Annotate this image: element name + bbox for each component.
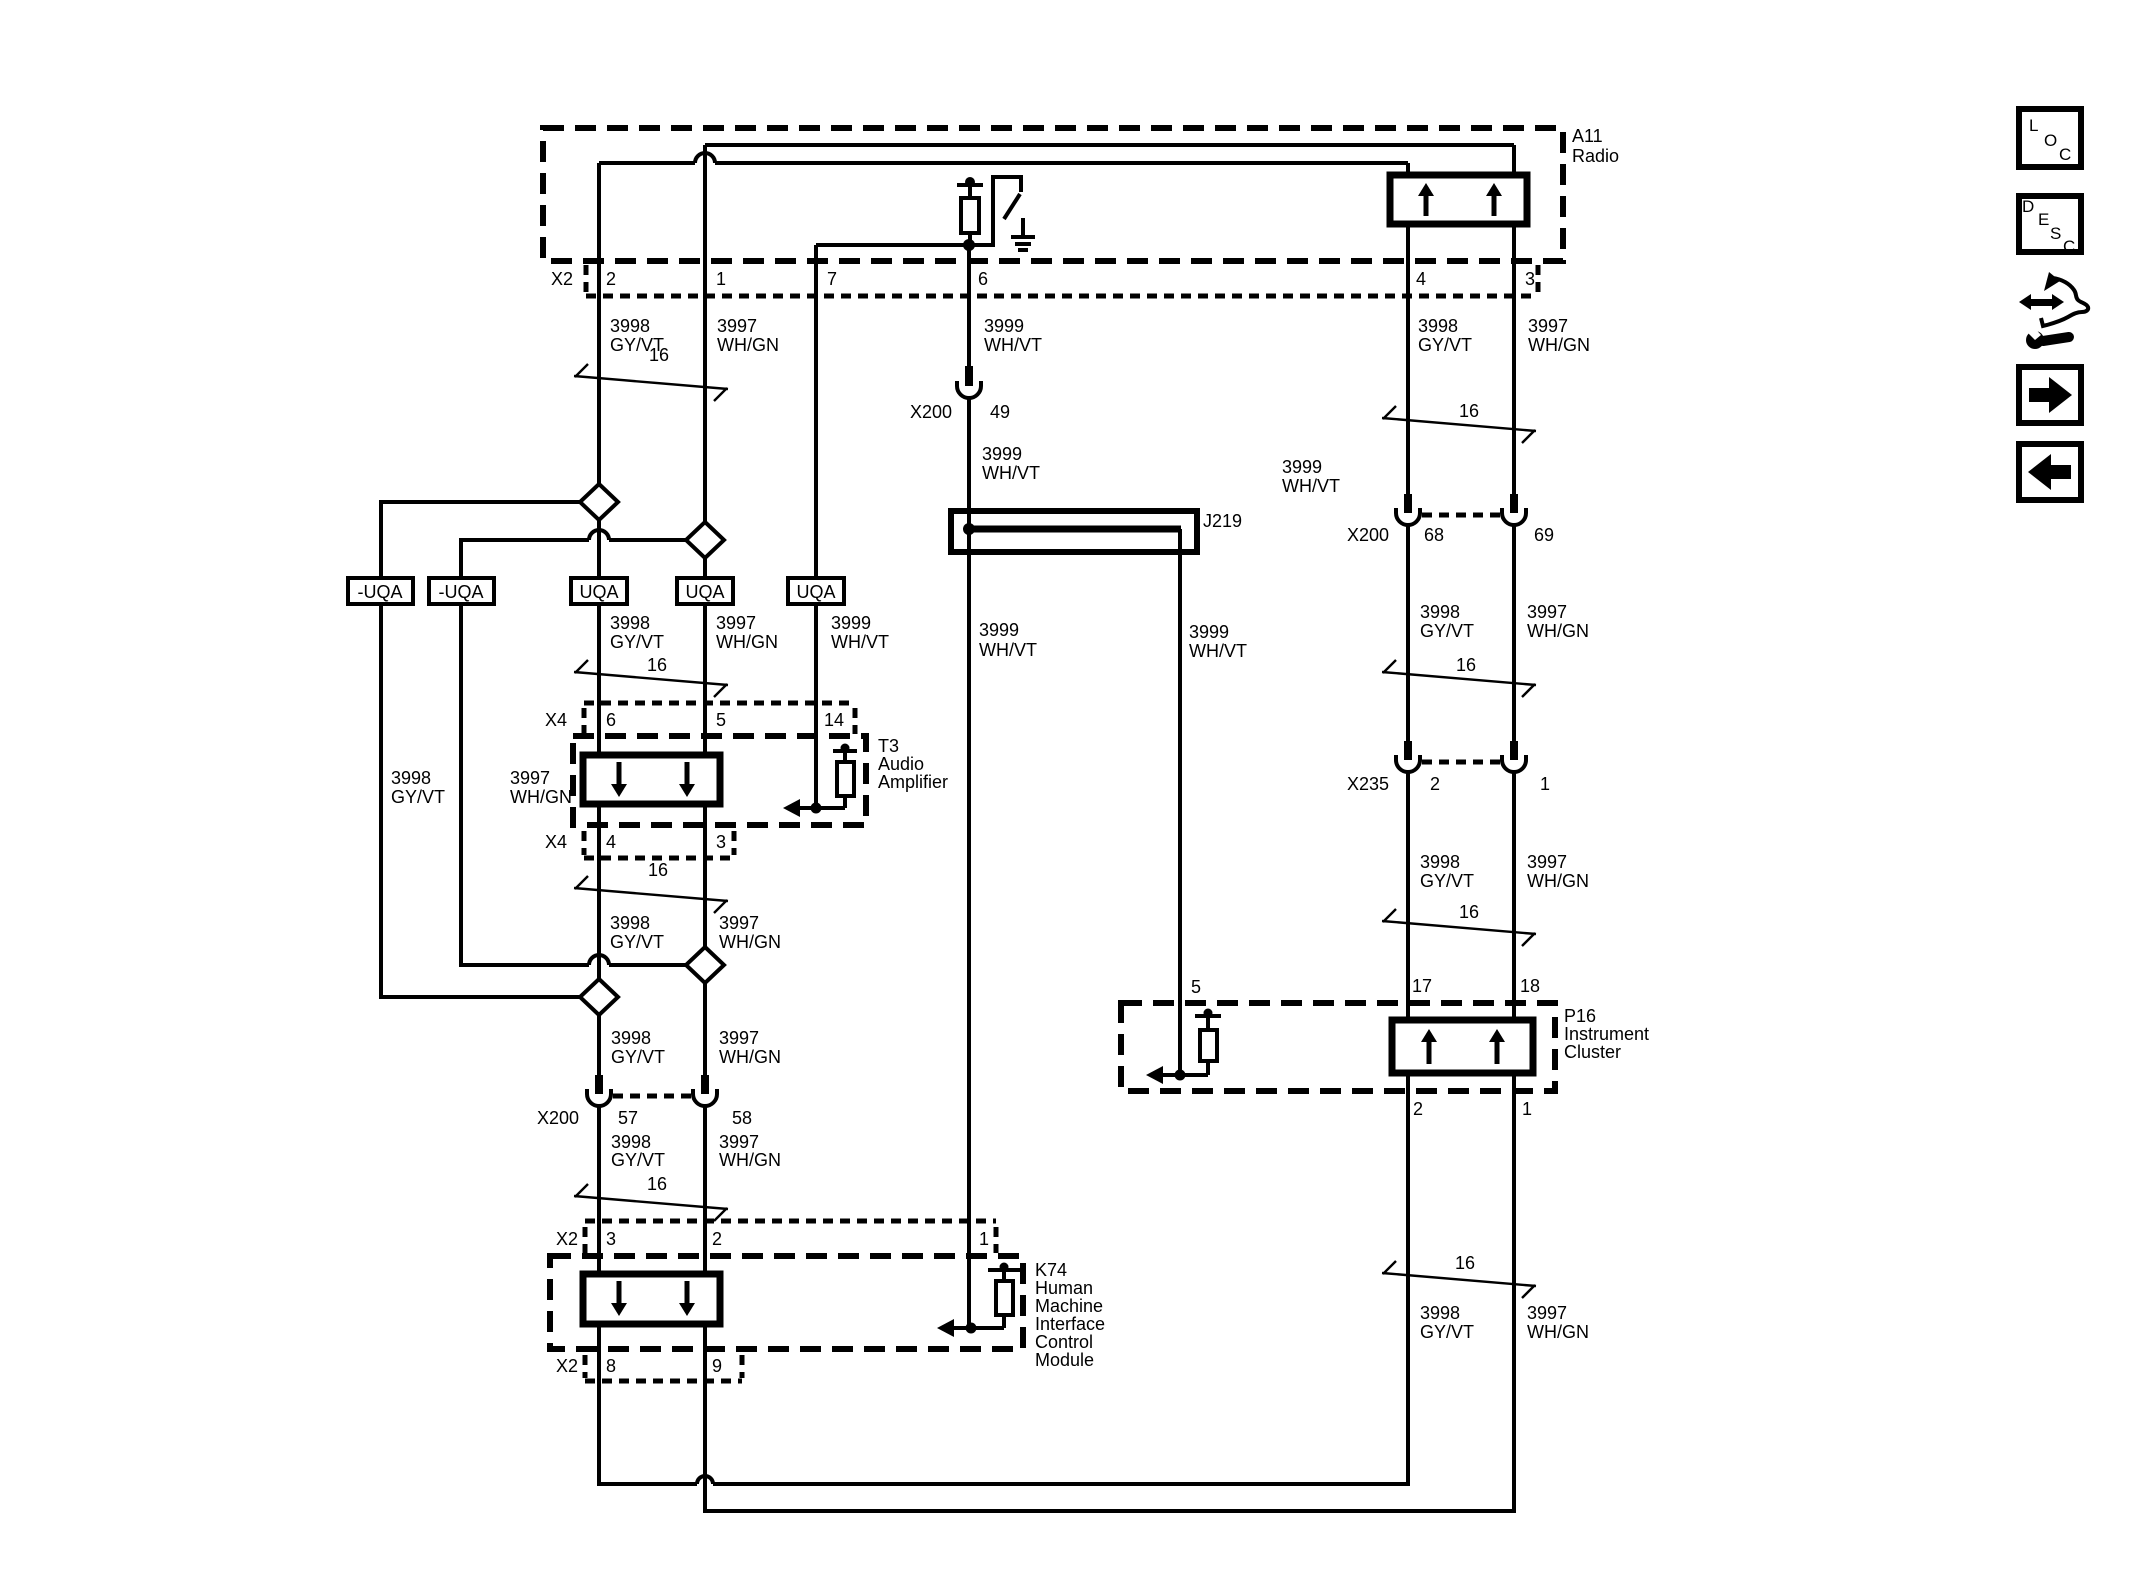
svg-text:WH/VT: WH/VT — [1189, 641, 1247, 661]
svg-text:57: 57 — [618, 1108, 638, 1128]
svg-text:3999: 3999 — [1189, 622, 1229, 642]
wire T3 internal resistor to node — [816, 806, 845, 810]
svg-text:3998: 3998 — [1420, 852, 1460, 872]
svg-text:4: 4 — [1416, 269, 1426, 289]
svg-text:16: 16 — [647, 1174, 667, 1194]
wire hop of -UQA branch 2 over 3998 wire (bottom) — [589, 955, 609, 965]
svg-text:3999: 3999 — [982, 444, 1022, 464]
svg-text:16: 16 — [1456, 655, 1476, 675]
twisted pair symbol right 1 — [1382, 406, 1536, 443]
svg-text:8: 8 — [606, 1356, 616, 1376]
wire P16 internal resistor to node — [1180, 1073, 1208, 1077]
svg-text:3998: 3998 — [1420, 1303, 1460, 1323]
wire -UQA option branch 2 vertical lower — [459, 604, 463, 967]
wire -UQA option branch 1 vertical upper — [379, 500, 383, 578]
svg-text:WH/GN: WH/GN — [719, 932, 781, 952]
DESC legend box — [2019, 196, 2081, 256]
svg-text:9: 9 — [712, 1356, 722, 1376]
arrow down in K74 box right — [679, 1281, 695, 1316]
svg-text:UQA: UQA — [685, 582, 724, 602]
wire dashed link X235 2-1 — [1422, 760, 1500, 765]
wire top horizontal 3998 left part (A11 pin 2 to hop) — [599, 161, 695, 165]
svg-text:3998: 3998 — [610, 316, 650, 336]
svg-text:L: L — [2029, 116, 2038, 135]
wire 3998 GY/VT right vertical upper (A11 pin 4 to X200-68) — [1406, 163, 1410, 496]
wire dashed link X200 68-69 — [1422, 513, 1500, 518]
svg-text:3999: 3999 — [1282, 457, 1322, 477]
wire 3998 GY/VT left vertical lower segment — [597, 1106, 601, 1486]
svg-text:X2: X2 — [551, 269, 573, 289]
svg-text:WH/GN: WH/GN — [1528, 335, 1590, 355]
svg-text:17: 17 — [1412, 976, 1432, 996]
arrow down in K74 box left — [611, 1281, 627, 1316]
twisted pair symbol right 2 — [1382, 660, 1536, 697]
ground symbol inside A11 radio — [1011, 218, 1035, 250]
resistor inside A11 radio — [957, 177, 983, 247]
wire K74 internal resistor to node — [971, 1326, 1004, 1330]
wire -UQA option branch 2 bottom horizontal right part — [609, 963, 686, 967]
svg-text:WH/VT: WH/VT — [984, 335, 1042, 355]
svg-text:X235: X235 — [1347, 774, 1389, 794]
arrow up in P16 box right — [1489, 1029, 1505, 1064]
wire 3997 WH/GN right vertical (X235-1 to bottom) — [1512, 772, 1516, 1513]
resistor inside K74 — [988, 1263, 1020, 1329]
svg-text:16: 16 — [1459, 401, 1479, 421]
inline connector X235 pin 1 — [1502, 741, 1526, 772]
svg-text:Module: Module — [1035, 1350, 1094, 1370]
svg-text:69: 69 — [1534, 525, 1554, 545]
svg-text:3999: 3999 — [984, 316, 1024, 336]
svg-text:16: 16 — [1455, 1253, 1475, 1273]
svg-text:X4: X4 — [545, 710, 567, 730]
wire A11 internal horizontal to pin 7 branch — [816, 243, 993, 247]
svg-text:2: 2 — [1413, 1099, 1423, 1119]
connector box with arrows inside P16 (pins 17/18) — [1392, 1020, 1533, 1073]
svg-text:GY/VT: GY/VT — [1420, 1322, 1474, 1342]
node diamond splice on 3998 wire (bottom) — [580, 979, 618, 1015]
wire -UQA option branch 1 bottom horizontal — [381, 995, 580, 999]
wire -UQA option branch 2 bottom horizontal left part — [461, 963, 589, 967]
svg-text:Instrument: Instrument — [1564, 1024, 1649, 1044]
inline connector X235 pin 2 — [1396, 741, 1420, 772]
connector box with arrows inside K74 — [583, 1274, 720, 1324]
svg-text:7: 7 — [827, 269, 837, 289]
svg-text:3997: 3997 — [1527, 1303, 1567, 1323]
svg-text:16: 16 — [649, 345, 669, 365]
previous page arrow box — [2019, 444, 2081, 500]
svg-text:T3: T3 — [878, 736, 899, 756]
svg-text:2: 2 — [712, 1229, 722, 1249]
svg-text:3997: 3997 — [1527, 852, 1567, 872]
node diamond splice on 3998 wire (top) — [580, 484, 618, 520]
wire 3999 WH/VT from J219 splice to P16 pin 5 — [1178, 529, 1182, 1075]
wire 3997 WH/GN right vertical upper (A11 pin 3 to X200-69) — [1512, 145, 1516, 496]
wire 3998 GY/VT right vertical (X200-68 to X235-2) — [1406, 525, 1410, 743]
svg-text:6: 6 — [978, 269, 988, 289]
connector box with arrows inside A11 (pins 4/3) — [1390, 175, 1527, 224]
svg-text:68: 68 — [1424, 525, 1444, 545]
twisted pair symbol left 1 — [574, 364, 728, 401]
switch inside A11 radio — [993, 177, 1021, 247]
svg-text:Cluster: Cluster — [1564, 1042, 1621, 1062]
wire -UQA option branch 2 top horizontal left part — [461, 538, 589, 542]
node junction inside P16 — [1175, 1070, 1186, 1081]
connector box with arrows inside T3 — [583, 755, 720, 804]
wire 3999 WH/VT center vertical (A11 pin 6 to X200-49) — [967, 245, 971, 368]
svg-text:-UQA: -UQA — [358, 582, 403, 602]
arrow into P16 cluster — [1146, 1066, 1180, 1084]
svg-text:2: 2 — [1430, 774, 1440, 794]
node junction inside T3 — [811, 803, 822, 814]
resistor inside T3 — [833, 744, 857, 809]
module K74 dashed outline — [550, 1256, 1023, 1349]
connector X2 of A11 dotted row — [586, 265, 1538, 296]
connector X2 of K74 dotted row (pins 3/2/1) — [585, 1221, 996, 1253]
svg-text:16: 16 — [647, 655, 667, 675]
wire 3997 WH/GN right vertical (X200-69 to X235-1) — [1512, 525, 1516, 743]
twisted pair symbol left 4 — [574, 1184, 728, 1221]
svg-text:3: 3 — [606, 1229, 616, 1249]
svg-text:C: C — [2063, 237, 2075, 256]
svg-text:GY/VT: GY/VT — [610, 932, 664, 952]
arrow down in T3 box left — [611, 762, 627, 797]
option box UQA on 3997 wire — [677, 578, 733, 604]
svg-text:X2: X2 — [556, 1229, 578, 1249]
wire bottom horizontal 3997 (K74 X2-9 to P16 pin 1 branch) — [703, 1509, 1516, 1513]
wire dashed link X200 57-58 — [613, 1094, 691, 1099]
svg-text:3997: 3997 — [719, 1028, 759, 1048]
svg-text:Human: Human — [1035, 1278, 1093, 1298]
connector X4 of T3 dotted row (pins 6/5/14) — [584, 703, 855, 734]
svg-text:P16: P16 — [1564, 1006, 1596, 1026]
svg-text:3998: 3998 — [1420, 602, 1460, 622]
svg-text:WH/VT: WH/VT — [979, 640, 1037, 660]
wire bottom horizontal 3998 left part (K74 X2-8 to hop) — [597, 1482, 697, 1486]
arrow into K74 module — [937, 1319, 971, 1337]
svg-text:E: E — [2038, 210, 2049, 229]
wire 3998 GY/VT right vertical (X235-2 to bottom) — [1406, 772, 1410, 1486]
wire 3999 WH/VT center vertical (X200-49 to K74 pin 1) — [967, 398, 971, 1328]
svg-text:WH/GN: WH/GN — [1527, 1322, 1589, 1342]
twisted pair symbol right 4 — [1382, 1261, 1536, 1298]
svg-text:D: D — [2022, 197, 2034, 216]
svg-text:GY/VT: GY/VT — [611, 1150, 665, 1170]
svg-text:3999: 3999 — [979, 620, 1019, 640]
node diamond splice on 3997 wire (top) — [686, 522, 724, 558]
option box UQA on 3998 wire — [571, 578, 627, 604]
svg-text:WH/VT: WH/VT — [1282, 476, 1340, 496]
connector X4 of T3 dotted row (pins 4/3) — [584, 831, 734, 858]
svg-text:X200: X200 — [910, 402, 952, 422]
svg-text:WH/GN: WH/GN — [1527, 621, 1589, 641]
wire 3997 WH/GN left vertical lower segment — [703, 1106, 707, 1513]
wire top horizontal 3998 right part (hop to A11 pin 4 branch) — [715, 161, 1408, 165]
amplifier T3 dashed outline — [573, 736, 866, 825]
svg-text:58: 58 — [732, 1108, 752, 1128]
splice J219 — [951, 511, 1197, 552]
svg-text:UQA: UQA — [796, 582, 835, 602]
inline connector X200 pin 68 — [1396, 494, 1420, 525]
twisted pair symbol left 3 — [574, 876, 728, 913]
arrow up in P16 box left — [1421, 1029, 1437, 1064]
arrow into T3 amplifier — [783, 799, 816, 817]
svg-text:GY/VT: GY/VT — [391, 787, 445, 807]
instrument cluster P16 dashed outline — [1121, 1003, 1555, 1091]
svg-text:3998: 3998 — [611, 1132, 651, 1152]
svg-text:3998: 3998 — [611, 1028, 651, 1048]
wire hop over pin-1 wire at top — [695, 153, 715, 163]
svg-text:C: C — [2059, 145, 2071, 164]
radio A11 dashed outline — [543, 128, 1563, 261]
svg-text:3: 3 — [716, 832, 726, 852]
arrow up in A11 connector box left — [1418, 183, 1434, 216]
arrow down in T3 box right — [679, 762, 695, 797]
svg-text:J219: J219 — [1203, 511, 1242, 531]
inline connector X200 pin 58 — [693, 1075, 717, 1106]
svg-text:GY/VT: GY/VT — [611, 1047, 665, 1067]
svg-text:3997: 3997 — [716, 613, 756, 633]
wire -UQA option branch 1 vertical lower — [379, 604, 383, 999]
inline connector X200 pin 49 — [957, 366, 981, 398]
svg-text:3997: 3997 — [1527, 602, 1567, 622]
svg-text:3998: 3998 — [610, 913, 650, 933]
svg-text:2: 2 — [606, 269, 616, 289]
svg-text:3997: 3997 — [719, 1132, 759, 1152]
inline connector X200 pin 69 — [1502, 494, 1526, 525]
svg-text:6: 6 — [606, 710, 616, 730]
wire -UQA option branch 2 vertical upper — [459, 538, 463, 578]
resistor inside P16 — [1195, 1009, 1221, 1076]
wire -UQA option branch 2 top horizontal right part — [609, 538, 686, 542]
wire top horizontal 3997 (A11 pin 1 to pin 3 branch) — [705, 143, 1514, 147]
svg-text:WH/GN: WH/GN — [716, 632, 778, 652]
svg-text:K74: K74 — [1035, 1260, 1067, 1280]
svg-text:Control: Control — [1035, 1332, 1093, 1352]
next page arrow box — [2019, 367, 2081, 423]
svg-text:5: 5 — [1191, 977, 1201, 997]
svg-text:X200: X200 — [537, 1108, 579, 1128]
twisted pair symbol left 2 — [574, 660, 728, 697]
svg-text:1: 1 — [979, 1229, 989, 1249]
svg-text:WH/GN: WH/GN — [510, 787, 572, 807]
node junction inside K74 — [966, 1323, 977, 1334]
svg-text:3997: 3997 — [717, 316, 757, 336]
svg-text:UQA: UQA — [579, 582, 618, 602]
wire hop of -UQA branch 2 over 3998 wire (top) — [589, 530, 609, 540]
svg-text:3998: 3998 — [610, 613, 650, 633]
svg-text:GY/VT: GY/VT — [1420, 621, 1474, 641]
arrow up in A11 connector box right — [1486, 183, 1502, 216]
wire bottom horizontal 3998 right part (hop to P16 pin 2 branch) — [713, 1482, 1410, 1486]
svg-text:49: 49 — [990, 402, 1010, 422]
svg-text:3997: 3997 — [719, 913, 759, 933]
svg-text:GY/VT: GY/VT — [1418, 335, 1472, 355]
node junction below radio resistor — [963, 239, 975, 251]
svg-text:GY/VT: GY/VT — [610, 632, 664, 652]
svg-text:3998: 3998 — [1418, 316, 1458, 336]
svg-text:5: 5 — [716, 710, 726, 730]
svg-text:WH/VT: WH/VT — [982, 463, 1040, 483]
svg-text:4: 4 — [606, 832, 616, 852]
svg-text:WH/VT: WH/VT — [831, 632, 889, 652]
connector X2 of K74 dotted row (pins 8/9) — [585, 1355, 742, 1381]
svg-text:16: 16 — [648, 860, 668, 880]
svg-text:1: 1 — [716, 269, 726, 289]
svg-text:1: 1 — [1540, 774, 1550, 794]
svg-text:Amplifier: Amplifier — [878, 772, 948, 792]
svg-text:18: 18 — [1520, 976, 1540, 996]
wire 3997 WH/GN left vertical (A11 X2-1 to bottom) — [703, 145, 707, 1075]
svg-text:-UQA: -UQA — [439, 582, 484, 602]
svg-text:3: 3 — [1525, 269, 1535, 289]
svg-text:O: O — [2044, 131, 2057, 150]
svg-text:WH/GN: WH/GN — [719, 1047, 781, 1067]
svg-text:1: 1 — [1522, 1099, 1532, 1119]
svg-text:Audio: Audio — [878, 754, 924, 774]
svg-text:14: 14 — [824, 710, 844, 730]
svg-text:3998: 3998 — [391, 768, 431, 788]
option box -UQA first — [348, 578, 413, 604]
service info icon (double arrow, outline, wrench) — [2019, 272, 2088, 349]
wire -UQA option branch 1 top horizontal — [381, 500, 580, 504]
svg-text:WH/GN: WH/GN — [717, 335, 779, 355]
svg-text:Machine: Machine — [1035, 1296, 1103, 1316]
svg-text:A11: A11 — [1572, 126, 1603, 146]
svg-text:Interface: Interface — [1035, 1314, 1105, 1334]
option box -UQA second — [429, 578, 494, 604]
wire 3998 GY/VT left vertical (A11 X2-2 to bottom) — [597, 163, 601, 1075]
option box UQA on 3999 wire — [788, 578, 844, 604]
wire 3999 WH/VT from A11 pin 7 to T3 — [814, 245, 818, 808]
inline connector X200 pin 57 — [587, 1075, 611, 1106]
wire hop over 3997 wire at bottom — [697, 1476, 713, 1484]
svg-text:X200: X200 — [1347, 525, 1389, 545]
svg-text:S: S — [2050, 224, 2061, 243]
svg-text:3999: 3999 — [831, 613, 871, 633]
svg-text:GY/VT: GY/VT — [1420, 871, 1474, 891]
svg-text:X4: X4 — [545, 832, 567, 852]
twisted pair symbol right 3 — [1382, 909, 1536, 946]
svg-text:X2: X2 — [556, 1356, 578, 1376]
svg-text:3997: 3997 — [1528, 316, 1568, 336]
LOC legend box — [2019, 109, 2081, 167]
svg-text:WH/GN: WH/GN — [1527, 871, 1589, 891]
svg-text:3997: 3997 — [510, 768, 550, 788]
svg-text:WH/GN: WH/GN — [719, 1150, 781, 1170]
node diamond splice on 3997 wire (bottom) — [686, 947, 724, 983]
svg-text:Radio: Radio — [1572, 146, 1619, 166]
svg-text:16: 16 — [1459, 902, 1479, 922]
